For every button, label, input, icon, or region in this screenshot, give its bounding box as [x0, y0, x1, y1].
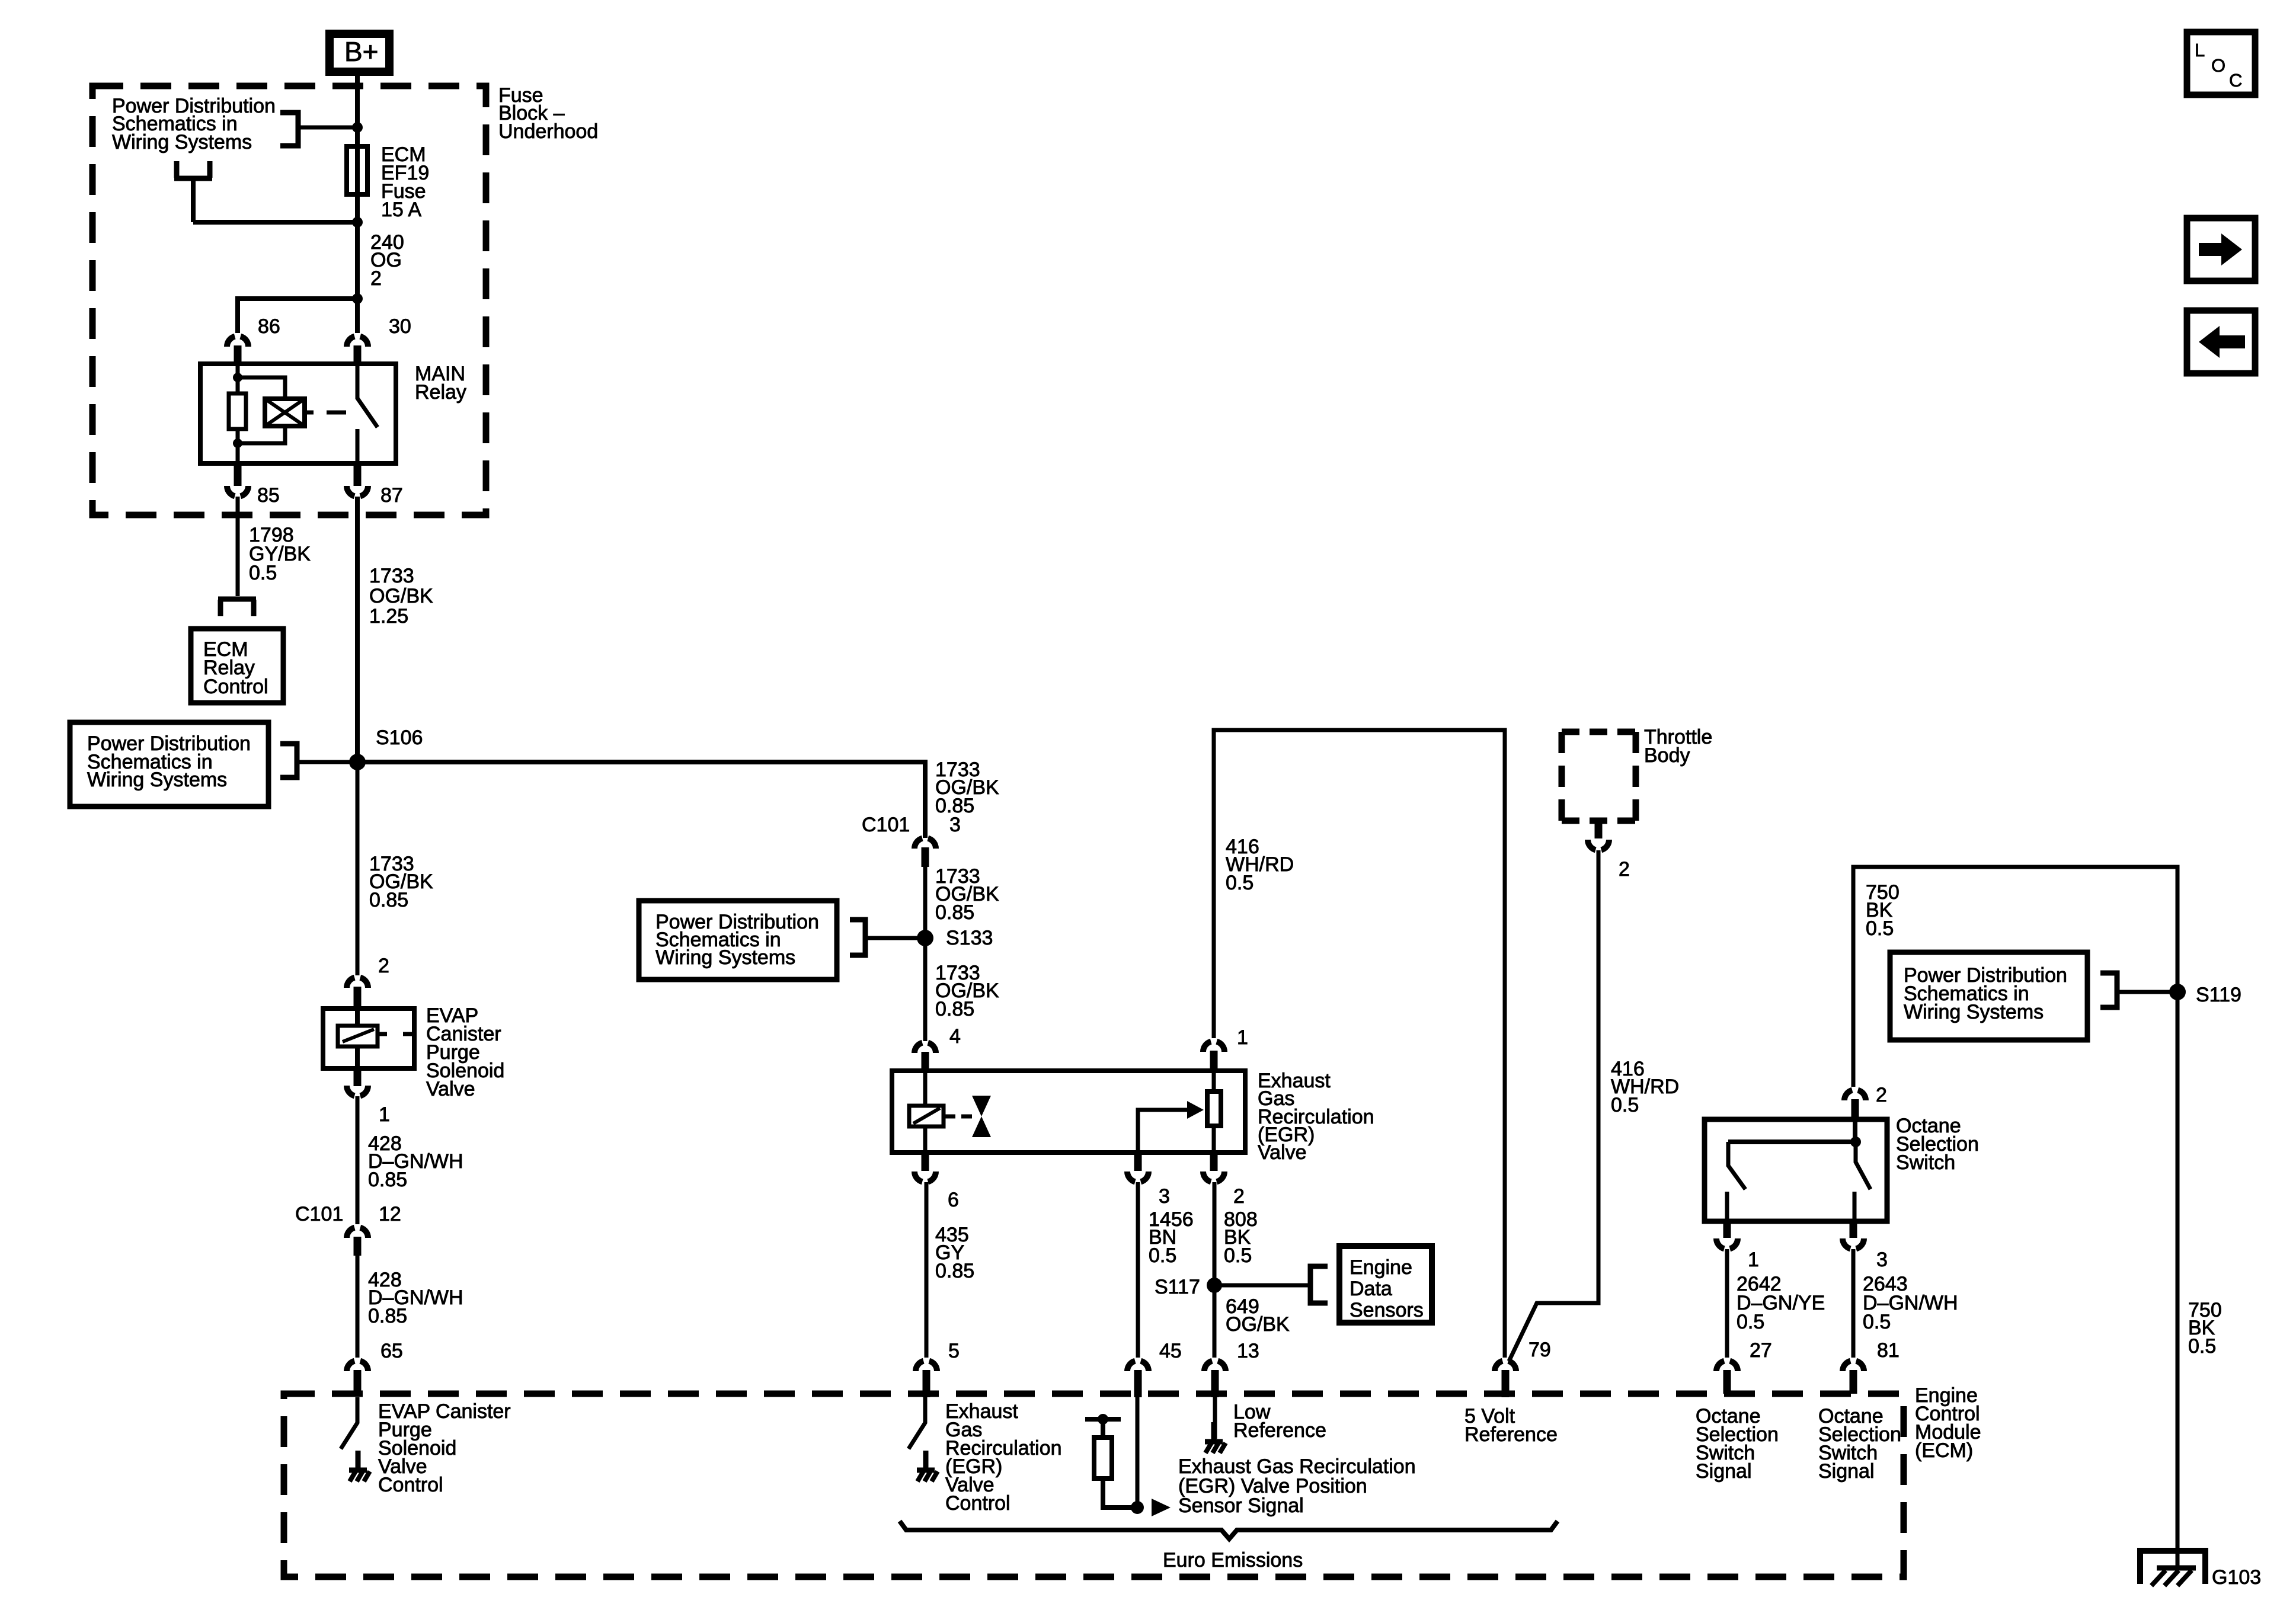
EGR position sensor wiper arrow	[1138, 1101, 1204, 1153]
svg-text:2: 2	[1876, 1084, 1887, 1106]
relay actuator dashed link	[305, 411, 346, 415]
ECM dashed box	[284, 1394, 1904, 1577]
svg-text:O: O	[2211, 55, 2225, 76]
wire S106 to C101-3	[357, 762, 925, 838]
connector ECM pin 5	[916, 1361, 937, 1371]
wire S117 to engine data sensors	[1214, 1283, 1310, 1288]
ECM internal pullup resistor	[1085, 1414, 1136, 1507]
connector pin 86	[227, 337, 248, 347]
wire EVAP pin1 down	[356, 1096, 360, 1224]
node relay coil top	[233, 373, 242, 382]
svg-text:15 A: 15 A	[381, 199, 421, 221]
svg-text:45: 45	[1159, 1340, 1182, 1362]
svg-text:Underhood: Underhood	[498, 120, 598, 143]
svg-text:0.5: 0.5	[249, 562, 277, 584]
EGR solenoid coil symbol	[909, 1071, 955, 1153]
EVAP solenoid coil symbol	[338, 1009, 412, 1068]
svg-text:1733: 1733	[369, 565, 414, 587]
node S117	[1207, 1278, 1222, 1293]
svg-text:OG/BK: OG/BK	[369, 585, 433, 607]
svg-text:85: 85	[257, 484, 280, 507]
svg-text:Control: Control	[945, 1492, 1011, 1515]
EGR position sensor resistor	[1207, 1071, 1221, 1153]
wire bracket to S133	[865, 936, 925, 940]
connector pin 2 EGR	[1210, 1151, 1218, 1171]
octane selection switch box	[1705, 1119, 1887, 1221]
svg-text:81: 81	[1877, 1339, 1900, 1362]
connector pin 4 EGR	[914, 1043, 936, 1053]
svg-text:C: C	[2229, 70, 2242, 91]
svg-text:Sensors: Sensors	[1350, 1299, 1424, 1321]
svg-text:OG/BK: OG/BK	[1226, 1313, 1290, 1336]
wire octane pin3 to ECM pin81	[1851, 1249, 1856, 1358]
svg-text:Engine: Engine	[1350, 1256, 1412, 1279]
S106 reference box	[70, 722, 268, 806]
svg-text:0.85: 0.85	[368, 1305, 407, 1327]
svg-text:Control: Control	[203, 676, 268, 698]
svg-text:0.5: 0.5	[1611, 1094, 1639, 1116]
svg-text:2: 2	[1233, 1185, 1245, 1208]
svg-text:0.85: 0.85	[935, 1260, 974, 1282]
wire 240 OG to relay	[355, 222, 360, 333]
svg-text:Reference: Reference	[1464, 1423, 1558, 1446]
wire EGR pin1 to ECM pin79	[1214, 730, 1505, 1358]
wire through fuse	[355, 127, 360, 222]
connector pin 3 octane	[1850, 1221, 1857, 1238]
node junction at fuse top	[352, 122, 363, 133]
wire C101-3 to S133	[923, 862, 928, 938]
ECM egr driver switch	[909, 1397, 925, 1449]
octane left switch contact	[1727, 1142, 1745, 1222]
svg-text:2: 2	[1619, 858, 1630, 881]
connector pin 85	[234, 462, 242, 486]
ECM low reference wire	[1213, 1397, 1217, 1439]
svg-text:G103: G103	[2212, 1566, 2261, 1589]
relay MAIN box	[200, 364, 396, 463]
connector ECM pin 27	[1716, 1361, 1738, 1371]
wire throttle pin2 to ECM pin79	[1509, 850, 1598, 1361]
svg-text:13: 13	[1237, 1340, 1259, 1362]
connector C101 pin 3	[914, 838, 936, 849]
svg-text:(ECM): (ECM)	[1915, 1439, 1973, 1462]
svg-text:6: 6	[948, 1189, 959, 1211]
svg-text:Wiring Systems: Wiring Systems	[655, 946, 795, 969]
relay coil loop wire	[238, 377, 285, 443]
connector pin 2 EVAP	[347, 978, 368, 988]
svg-text:1: 1	[1237, 1026, 1248, 1049]
svg-text:Valve: Valve	[1258, 1141, 1307, 1164]
svg-text:86: 86	[258, 315, 280, 338]
svg-text:0.85: 0.85	[368, 1169, 407, 1191]
svg-text:S106: S106	[376, 726, 423, 749]
connector pin 2 throttle body	[1595, 822, 1603, 838]
svg-text:3: 3	[1159, 1185, 1170, 1208]
legend arrow right box	[2187, 218, 2255, 281]
legend arrow left box	[2187, 311, 2255, 373]
relay coil resistor	[229, 393, 246, 429]
svg-text:3: 3	[1876, 1249, 1888, 1271]
fuse EF19 symbol	[347, 146, 367, 194]
off-page bracket S106	[280, 744, 297, 777]
wire B+ to fuse	[355, 76, 360, 146]
wire EGR pin3 to ECM pin45	[1136, 1182, 1140, 1358]
S133 reference box	[639, 901, 837, 980]
ground G103	[2140, 1551, 2205, 1586]
connector C101 pin 12	[347, 1228, 368, 1238]
off-page bracket S119	[2100, 973, 2117, 1007]
svg-text:Signal: Signal	[1696, 1460, 1752, 1483]
wire pin87 down to S106	[355, 497, 360, 762]
svg-text:B+: B+	[344, 36, 379, 67]
svg-text:65: 65	[380, 1340, 403, 1362]
svg-text:0.85: 0.85	[935, 998, 974, 1020]
svg-text:S119: S119	[2196, 984, 2241, 1006]
svg-text:0.5: 0.5	[1226, 872, 1253, 894]
ground ECM low reference	[1205, 1422, 1226, 1453]
wire to pin 86	[238, 299, 357, 333]
svg-text:S117: S117	[1155, 1276, 1200, 1298]
wire bracket to node	[298, 126, 357, 130]
wire EGR pin2 to S117	[1213, 1182, 1217, 1285]
relay switch contact	[357, 364, 378, 463]
svg-text:0.5: 0.5	[2188, 1335, 2216, 1358]
ground ECM evap driver	[349, 1451, 370, 1481]
EGR valve box	[892, 1071, 1245, 1153]
euro emissions brace	[900, 1521, 1558, 1539]
svg-text:0.5: 0.5	[1224, 1244, 1252, 1267]
ground ECM egr driver	[917, 1451, 938, 1481]
svg-text:0.5: 0.5	[1149, 1244, 1176, 1267]
off-page cup bracket below reference	[174, 161, 212, 178]
fuse block underhood dashed box	[92, 86, 486, 515]
connector pin 87	[354, 462, 362, 486]
svg-text:79: 79	[1528, 1339, 1551, 1361]
svg-text:Euro Emissions: Euro Emissions	[1163, 1549, 1303, 1571]
connector pin 1 EVAP	[354, 1068, 362, 1086]
svg-text:0.5: 0.5	[1866, 917, 1894, 940]
svg-text:27: 27	[1750, 1339, 1772, 1362]
cap bracket above ECM relay control	[218, 599, 256, 616]
wire bracket to S106	[297, 760, 357, 764]
wire EGR pin6 to ECM pin5	[925, 1182, 929, 1358]
connector pin 1 EGR	[1203, 1042, 1224, 1052]
EGR butterfly valve symbol	[961, 1096, 991, 1137]
connector ECM pin 79	[1495, 1361, 1516, 1371]
svg-text:1.25: 1.25	[369, 605, 408, 628]
connector pin 3 EGR	[1134, 1151, 1142, 1171]
node S119	[2169, 984, 2186, 1000]
svg-text:Switch: Switch	[1896, 1151, 1955, 1174]
svg-text:C101: C101	[295, 1203, 343, 1225]
connector ECM pin 81	[1843, 1361, 1864, 1371]
svg-text:87: 87	[380, 484, 403, 507]
relay solenoid core X-box	[265, 399, 305, 426]
svg-text:Reference: Reference	[1233, 1419, 1326, 1442]
relay coil branch wire	[236, 364, 240, 463]
off-page bracket top	[280, 113, 298, 146]
octane right switch contact	[1854, 1142, 1870, 1222]
svg-text:2: 2	[378, 955, 389, 977]
off-page bracket engine data sensors	[1310, 1266, 1328, 1303]
svg-text:Valve: Valve	[426, 1078, 475, 1100]
wire S106 down	[356, 762, 360, 975]
connector pin 2 octane	[1844, 1090, 1866, 1100]
octane switch internal bus	[1728, 1118, 1856, 1142]
connector pin 1 octane	[1723, 1221, 1731, 1238]
svg-text:5: 5	[948, 1340, 960, 1362]
svg-text:0.85: 0.85	[935, 901, 974, 924]
off-page bracket S133	[850, 920, 865, 955]
wire pin85 down	[236, 497, 240, 596]
svg-text:12: 12	[379, 1203, 401, 1225]
node sensor signal junction	[1131, 1501, 1144, 1514]
svg-text:0.85: 0.85	[369, 889, 408, 911]
svg-text:30: 30	[389, 315, 411, 338]
connector pin 30	[347, 337, 368, 347]
connector ECM pin 13	[1204, 1361, 1226, 1371]
wire bracket to fuse output node	[193, 178, 357, 222]
svg-text:1: 1	[1748, 1249, 1759, 1271]
node junction below fuse	[352, 217, 363, 228]
connector ECM pin 45	[1127, 1361, 1149, 1371]
node octane bus	[1850, 1137, 1861, 1147]
svg-text:0.5: 0.5	[1737, 1311, 1764, 1333]
S119 reference box	[1890, 952, 2087, 1040]
throttle body dashed box	[1562, 732, 1636, 821]
svg-text:L: L	[2195, 40, 2205, 60]
ECM internal sensor signal wire	[1136, 1397, 1140, 1507]
svg-text:2: 2	[370, 267, 382, 290]
svg-text:3: 3	[949, 814, 961, 836]
node relay coil bottom	[233, 438, 242, 448]
wire S117 to ECM pin13	[1213, 1285, 1217, 1358]
svg-text:1: 1	[379, 1103, 390, 1126]
svg-text:Data: Data	[1350, 1278, 1392, 1300]
svg-text:4: 4	[949, 1025, 961, 1048]
svg-text:S133: S133	[946, 927, 993, 949]
svg-text:Wiring Systems: Wiring Systems	[1904, 1001, 2044, 1023]
svg-text:Wiring Systems: Wiring Systems	[112, 131, 252, 153]
svg-text:0.5: 0.5	[1863, 1311, 1891, 1333]
connector pin 65	[347, 1361, 368, 1371]
svg-text:C101: C101	[862, 814, 910, 836]
svg-text:Signal: Signal	[1818, 1460, 1875, 1483]
EVAP canister purge solenoid valve box	[323, 1009, 414, 1068]
svg-text:Sensor Signal: Sensor Signal	[1178, 1494, 1304, 1517]
LOC legend box	[2187, 32, 2255, 95]
wire S133 to pin 4	[923, 938, 928, 1041]
node S133	[917, 930, 933, 946]
svg-text:Wiring Systems: Wiring Systems	[87, 769, 227, 791]
wire bracket to S119	[2117, 990, 2177, 994]
connector pin 6 EGR	[922, 1151, 929, 1171]
ECM evap driver switch	[341, 1397, 357, 1449]
svg-text:Relay: Relay	[415, 381, 466, 404]
svg-text:Control: Control	[378, 1474, 443, 1496]
wire octane top feed	[1853, 867, 2177, 1568]
ECM sensor signal arrow	[1152, 1499, 1171, 1516]
battery terminal B+	[330, 34, 389, 72]
wire C101 to pin65	[356, 1251, 360, 1358]
engine data sensors box	[1339, 1246, 1432, 1323]
ECM Relay Control box	[191, 629, 283, 703]
node branch to pin 86	[352, 293, 363, 304]
node S106	[349, 754, 366, 770]
svg-text:Body: Body	[1644, 744, 1690, 767]
wire octane pin1 to ECM pin27	[1725, 1249, 1729, 1358]
